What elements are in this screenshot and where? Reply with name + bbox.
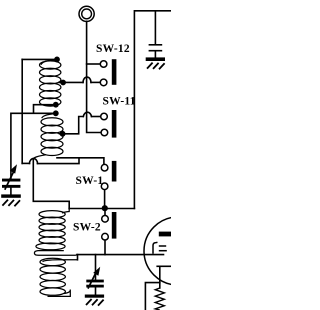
wire L3 to L4 connector <box>77 255 79 260</box>
capacitor C2 (variable, padder) <box>86 267 104 289</box>
capacitor C3 (trimmer to ground, top right) <box>149 45 163 51</box>
ground (C3) <box>146 57 165 69</box>
tube V1 grid <box>153 242 167 254</box>
switch SW-12 contact 1 <box>100 61 107 68</box>
inductor L1 <box>40 60 64 106</box>
node L1 bottom <box>53 102 59 108</box>
wire hop over antenna line <box>83 112 91 116</box>
wire C1 bottom lead to ground <box>10 188 12 195</box>
switch SW-12 contact 2 <box>100 79 107 86</box>
wire left bus A down <box>21 59 23 163</box>
wire hop over coil L2 bottom lead <box>30 159 38 164</box>
wire cathode branch left <box>145 283 159 310</box>
wire trimmer C3 bottom lead <box>154 51 156 57</box>
ground (C2) <box>85 295 104 306</box>
resistor R1 (cathode) <box>155 288 164 310</box>
switch SW-2 contact 2 <box>102 233 109 240</box>
wire C2 bottom lead <box>95 287 97 294</box>
switch SW-2 rotor bar <box>112 212 117 239</box>
switch SW-1 rotor bar <box>112 161 117 182</box>
wire continue to SW-12 contact 2 <box>91 81 100 83</box>
switch SW-11 contact 1 <box>101 113 108 120</box>
inductor L2 <box>33 114 63 159</box>
wire tuning node: L2 top left to variable capacitor C1 <box>11 113 53 179</box>
wire upper run to SW-1 contact 1 <box>57 158 104 165</box>
node L2 tap <box>60 131 66 137</box>
wire coil L2 bottom down to junction bus <box>33 159 69 209</box>
capacitor C1 (variable, tuning) <box>2 164 20 190</box>
wire junction to SW-2 contact 1 <box>104 209 106 216</box>
node L2 top <box>53 110 59 116</box>
switch SW-11 contact 2 <box>101 129 108 136</box>
wire trimmer C3 top lead <box>154 11 156 44</box>
wire right riser <box>134 11 171 209</box>
switch SW-2 contact 1 <box>102 216 109 223</box>
wire bus A to SW-1 contact 1 <box>22 162 29 164</box>
wire continue to SW-11 contact 1 <box>92 116 101 118</box>
switch SW-12 rotor bar <box>112 59 117 85</box>
switch SW-1 contact 1 <box>101 164 108 171</box>
tube V1 envelope <box>144 217 212 285</box>
svg-text:SW-11: SW-11 <box>103 96 136 108</box>
antenna terminal J1 <box>79 6 94 21</box>
svg-text:SW-2: SW-2 <box>73 221 101 233</box>
wire SW-1 contact 2 to junction <box>104 190 106 209</box>
wire coil L1 tap to SW-12 contact 2 <box>59 81 83 83</box>
wire L1 top lead <box>22 58 54 60</box>
svg-text:SW-12: SW-12 <box>96 43 130 55</box>
wire cathode to resistor R1 <box>159 266 161 288</box>
wire antenna lead down to SW-11 contact 2 <box>87 21 101 132</box>
ground (C1) <box>1 194 21 206</box>
wire cathode lead <box>157 265 171 267</box>
wire coil L2 tap to SW-11 contact 1 <box>60 117 84 134</box>
wire C2 top lead <box>95 255 97 280</box>
wire SW-12 contact 1 lead <box>87 63 101 65</box>
node L1 top <box>54 57 60 63</box>
wire grid line to tube <box>77 254 164 256</box>
wire junction bus to right riser <box>69 208 134 210</box>
wire L1 bottom to tuning node <box>34 105 54 113</box>
switch SW-11 rotor bar <box>112 110 117 138</box>
svg-text:SW-1: SW-1 <box>76 175 104 187</box>
node junction bus <box>102 205 108 211</box>
inductor L3 <box>34 209 77 256</box>
wire jog up to SW-1 contact 1 <box>38 158 80 164</box>
wire SW-2 contact 2 down to grid line <box>104 240 106 255</box>
wire hop over antenna line <box>83 77 91 82</box>
node L1 tap <box>60 80 66 86</box>
switch SW-1 contact 2 <box>101 183 108 190</box>
tube V1 plate <box>159 232 171 237</box>
inductor L4 <box>40 258 78 296</box>
